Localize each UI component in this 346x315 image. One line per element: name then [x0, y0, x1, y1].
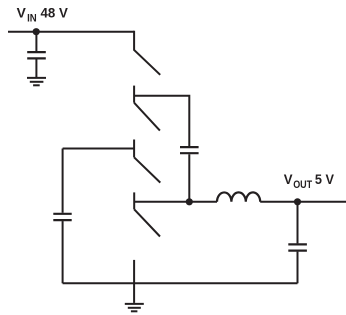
svg-text:5 V: 5 V	[315, 172, 334, 187]
wire C2 lead top	[62, 149, 64, 213]
wire input rail	[8, 31, 134, 33]
switch S4 lower terminal stub	[133, 260, 135, 303]
capacitor C2	[53, 214, 71, 220]
svg-text:V: V	[17, 5, 26, 20]
svg-text:OUT: OUT	[293, 179, 312, 191]
capacitor C1 flying	[180, 147, 199, 153]
svg-text:V: V	[284, 172, 293, 187]
switch S4 terminal stub	[133, 192, 135, 209]
wire S2 to flying capacitor	[134, 96, 189, 146]
wire C2 lead bottom	[62, 221, 64, 283]
label VOUT 5 V	[284, 172, 334, 191]
wire VOUT cap lead top	[297, 202, 299, 244]
wire bottom rail	[63, 282, 298, 284]
wire S3 to C2	[63, 148, 135, 150]
wire flying capacitor to switch node	[188, 154, 190, 202]
switch S4 blade	[134, 209, 160, 236]
node VOUT	[294, 198, 301, 205]
svg-text:IN: IN	[27, 12, 37, 24]
node input	[33, 28, 40, 35]
wire inductor to VOUT	[260, 201, 346, 203]
wire switch node to inductor	[134, 201, 217, 203]
wire input cap lead top	[35, 32, 37, 51]
label VIN 48 V	[17, 5, 68, 24]
switch S3 blade	[134, 157, 160, 182]
capacitor CIN	[27, 52, 46, 58]
switch S2 terminal stub	[133, 86, 135, 103]
inductor L1	[217, 192, 260, 201]
switch S1	[134, 31, 160, 75]
switch S3 terminal stub	[133, 140, 135, 158]
svg-text:48 V: 48 V	[41, 5, 68, 20]
switch S2 blade	[134, 103, 160, 131]
ground bottom	[125, 304, 144, 311]
wire input cap lead bottom	[35, 60, 37, 78]
node switch-node	[186, 198, 193, 205]
wire VOUT cap lead bottom	[297, 252, 299, 284]
capacitor COUT	[288, 244, 307, 250]
ground input	[27, 78, 46, 85]
